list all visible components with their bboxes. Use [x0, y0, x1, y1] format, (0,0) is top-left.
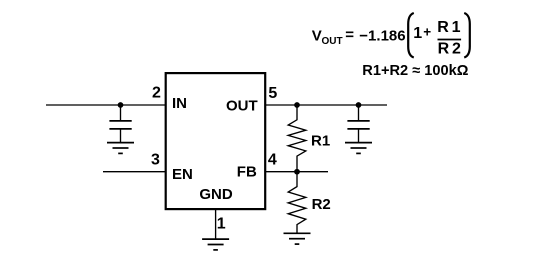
pin label GND — [199, 186, 233, 203]
op-amp U1 regulator body — [166, 73, 266, 209]
svg-text:EN: EN — [172, 166, 193, 183]
formula 1 plus — [413, 24, 431, 42]
resistor R2 — [288, 172, 306, 234]
pin number 2 — [152, 85, 161, 102]
ground (IC GND pin 1) — [202, 239, 229, 250]
svg-text:2: 2 — [152, 85, 161, 102]
resistor R2 value label — [312, 196, 331, 213]
formula fraction bar — [438, 39, 462, 41]
wire OUT (pin 5) — [265, 104, 387, 106]
svg-text:IN: IN — [172, 95, 187, 112]
svg-text:4: 4 — [268, 151, 277, 168]
pin label EN — [172, 166, 193, 183]
formula big right parenthesis — [464, 13, 470, 58]
ground (R2 bottom) — [284, 233, 311, 244]
svg-text:FB: FB — [237, 164, 257, 181]
formula big left parenthesis — [408, 13, 414, 58]
wire EN (pin 3) — [103, 171, 165, 173]
pin label IN — [172, 95, 187, 112]
svg-text:V: V — [312, 27, 322, 44]
svg-text:GND: GND — [199, 186, 233, 203]
pin number 4 — [268, 151, 277, 168]
capacitor C2 (output) — [347, 105, 369, 143]
svg-text:−1.186: −1.186 — [359, 27, 405, 44]
node junction dot output cap — [356, 102, 362, 108]
svg-text:1: 1 — [217, 216, 226, 233]
wire FB (pin 4) — [265, 171, 328, 173]
node junction dot input — [118, 102, 124, 108]
svg-text:2: 2 — [452, 40, 461, 57]
pin number 5 — [268, 85, 277, 102]
formula fraction numerator R1 — [437, 19, 460, 36]
svg-text:=: = — [345, 27, 354, 44]
svg-text:+: + — [423, 24, 431, 39]
svg-text:R1+R2 ≈ 100kΩ: R1+R2 ≈ 100kΩ — [362, 63, 468, 79]
formula R1+R2 approx 100k ohm — [362, 63, 468, 79]
node junction dot FB divider — [294, 169, 300, 175]
pin number 1 — [217, 216, 226, 233]
node junction dot output R1 top — [294, 102, 300, 108]
ground (output capacitor) — [345, 143, 372, 154]
svg-text:OUT: OUT — [322, 36, 343, 47]
formula Vout term — [312, 27, 406, 47]
capacitor C1 (input) — [109, 105, 131, 143]
pin label FB — [237, 164, 257, 181]
svg-text:R2: R2 — [312, 196, 331, 213]
svg-text:R: R — [438, 40, 450, 57]
svg-text:R: R — [437, 19, 449, 36]
wire GND stub (pin 1) — [215, 209, 217, 239]
wire IN (pin 2) — [46, 104, 165, 106]
svg-text:1: 1 — [452, 19, 461, 36]
resistor R1 value label — [311, 133, 330, 150]
svg-text:5: 5 — [268, 85, 277, 102]
formula fraction denominator R2 — [438, 40, 461, 57]
resistor R1 — [288, 105, 306, 172]
svg-text:3: 3 — [151, 151, 160, 168]
pin label OUT — [226, 98, 258, 115]
ground (input capacitor) — [107, 143, 134, 154]
svg-text:R1: R1 — [311, 133, 330, 150]
svg-text:OUT: OUT — [226, 98, 258, 115]
pin number 3 — [151, 151, 160, 168]
svg-text:1: 1 — [413, 25, 422, 42]
